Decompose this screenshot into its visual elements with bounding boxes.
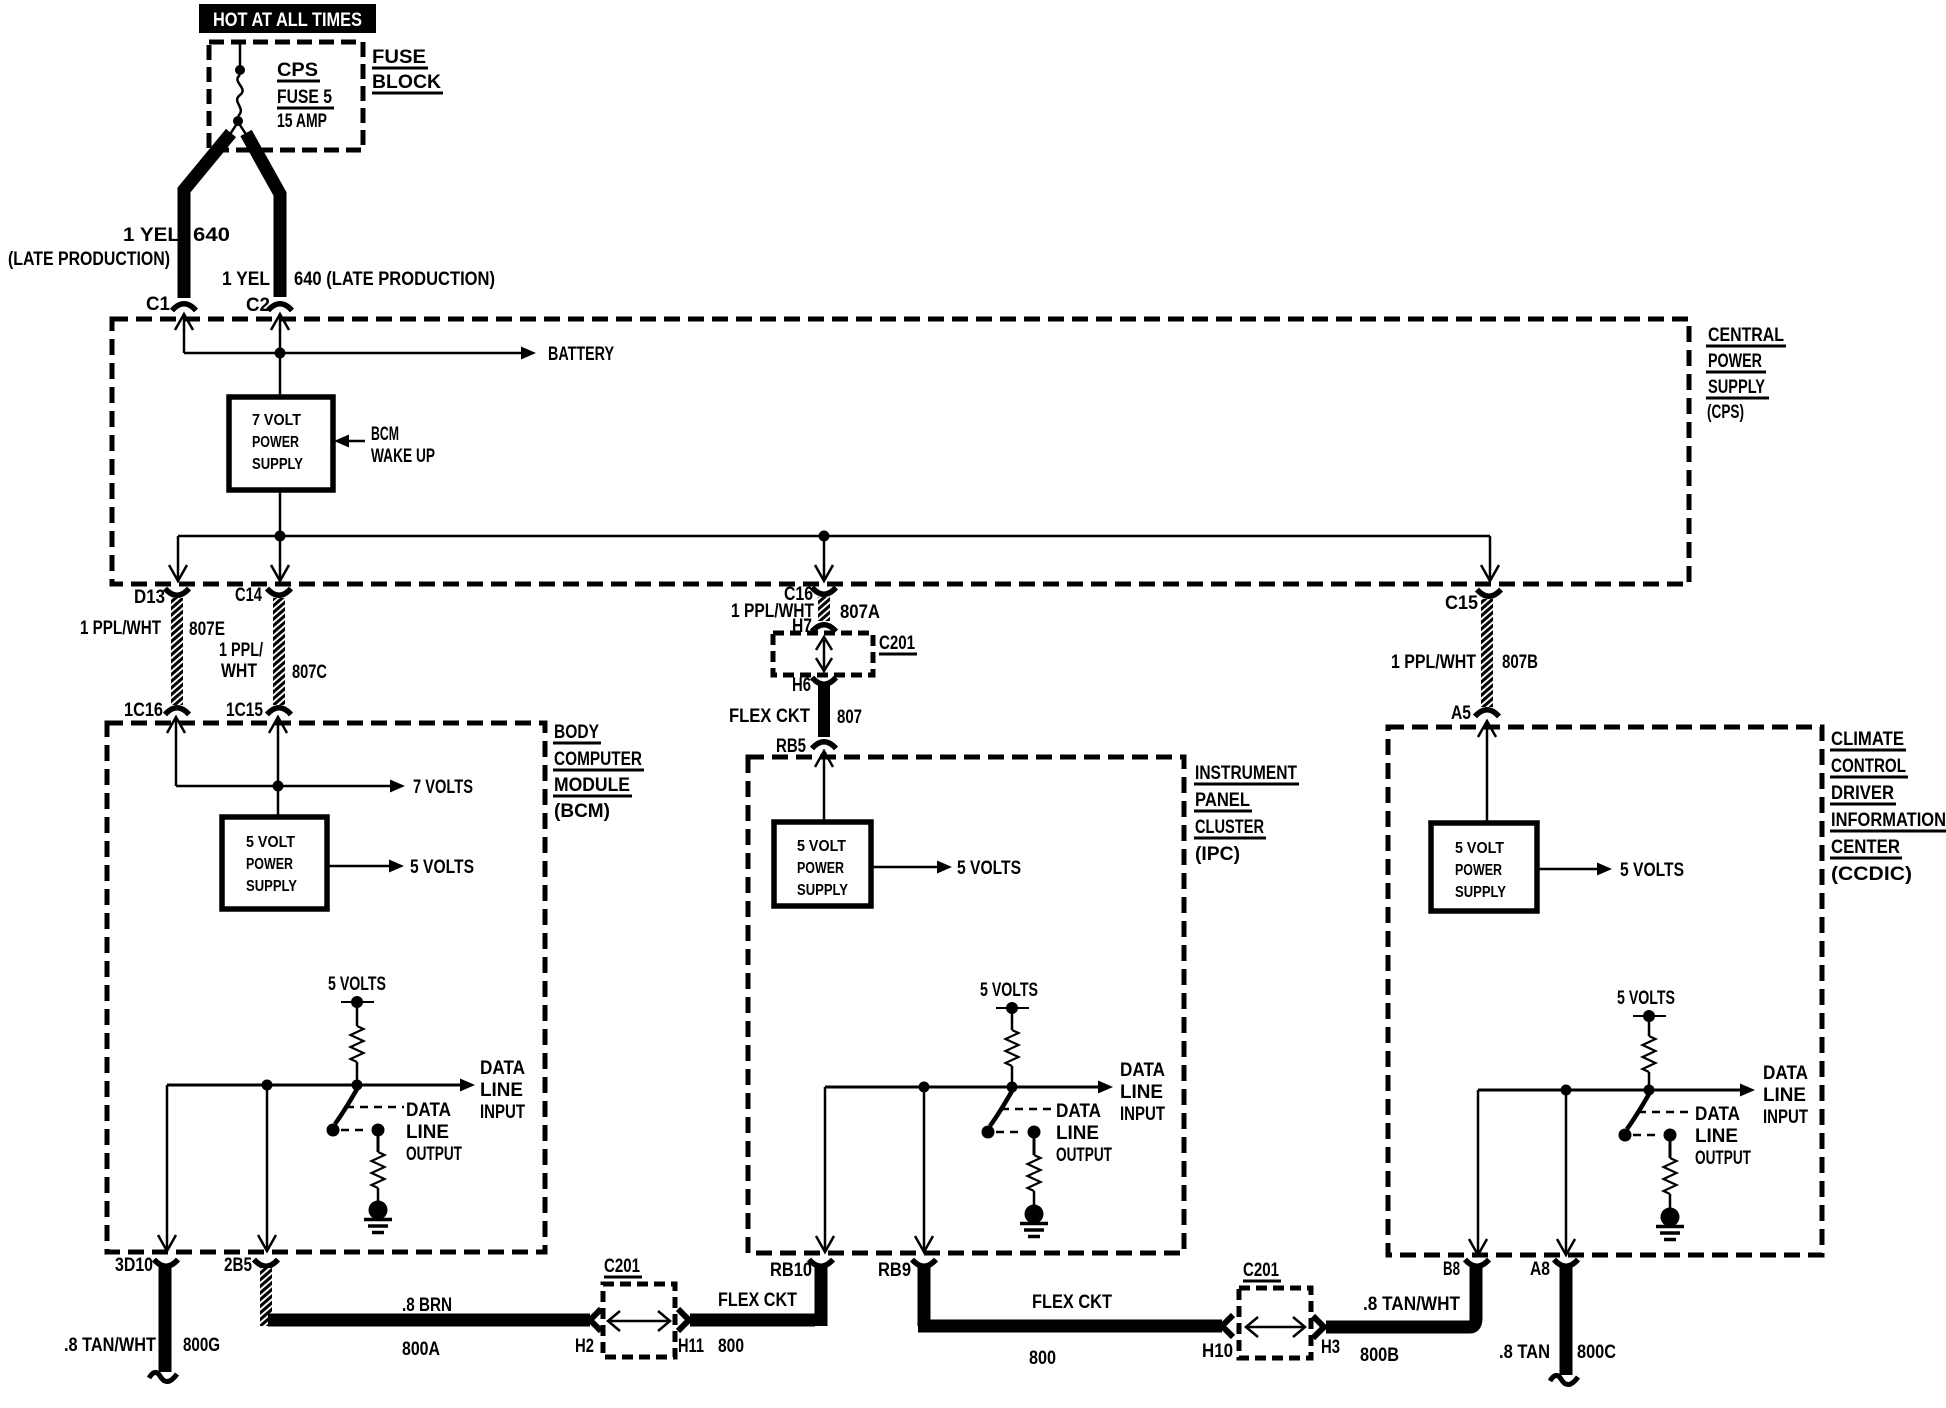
BCM 5 volts pull-up terminal bbox=[328, 974, 386, 1008]
svg-text:807B: 807B bbox=[1502, 652, 1538, 673]
svg-text:SUPPLY: SUPPLY bbox=[252, 456, 303, 473]
junction 7 volts bbox=[273, 781, 284, 792]
entry arrow 1C15 bbox=[269, 717, 287, 786]
connector H7 bbox=[792, 616, 836, 637]
label .8 TAN/WHT 800B bbox=[1360, 1294, 1460, 1366]
svg-text:1 YEL: 1 YEL bbox=[222, 269, 270, 290]
IPC switch arm bbox=[982, 1091, 1013, 1139]
svg-text:FUSE 5: FUSE 5 bbox=[277, 87, 332, 108]
IPC data line input wire bbox=[825, 1081, 1113, 1094]
label 1 PPL/WHT 807A bbox=[731, 601, 880, 623]
svg-text:C201: C201 bbox=[879, 633, 915, 654]
instrument panel cluster (IPC) box bbox=[748, 757, 1184, 1253]
fuse label CPS FUSE 5 15 AMP bbox=[277, 60, 334, 132]
svg-text:BLOCK: BLOCK bbox=[372, 72, 441, 93]
svg-text:3D10: 3D10 bbox=[115, 1255, 153, 1276]
svg-text:807: 807 bbox=[837, 707, 862, 728]
BCM wire to 3D10 bbox=[158, 1085, 176, 1251]
BCM switch arm bbox=[327, 1089, 358, 1137]
connector C201 (IP harness) box top bbox=[773, 633, 917, 675]
BCM data line output label bbox=[406, 1100, 462, 1165]
IPC output resistor bbox=[1028, 1138, 1041, 1205]
label .8 BRN 800A bbox=[402, 1295, 452, 1360]
IPC wire to RB9 bbox=[915, 1092, 933, 1252]
svg-text:SUPPLY: SUPPLY bbox=[797, 882, 848, 899]
IPC 5 volts pull-up terminal bbox=[980, 980, 1038, 1014]
connector RB10 bbox=[770, 1260, 833, 1282]
svg-text:RB9: RB9 bbox=[878, 1260, 911, 1281]
BCM data line input label bbox=[480, 1058, 525, 1123]
svg-text:FLEX CKT: FLEX CKT bbox=[729, 706, 810, 727]
svg-text:(CPS): (CPS) bbox=[1707, 402, 1744, 423]
svg-text:800B: 800B bbox=[1360, 1345, 1399, 1366]
svg-text:DATA: DATA bbox=[1763, 1063, 1808, 1084]
svg-text:RB5: RB5 bbox=[776, 736, 806, 757]
BCM data line output dashed feed bbox=[346, 1106, 404, 1109]
svg-text:PANEL: PANEL bbox=[1195, 790, 1250, 811]
junction distribution at supply bbox=[275, 531, 286, 542]
svg-text:DATA: DATA bbox=[1120, 1060, 1165, 1081]
IPC switch output dashed bbox=[996, 1126, 1041, 1139]
svg-text:INFORMATION: INFORMATION bbox=[1831, 810, 1946, 831]
svg-text:800G: 800G bbox=[183, 1335, 220, 1356]
svg-text:INPUT: INPUT bbox=[1763, 1107, 1808, 1128]
connector C2 bbox=[246, 295, 292, 316]
connector C16 bbox=[784, 584, 836, 605]
fuse block label bbox=[372, 47, 443, 93]
svg-text:FUSE: FUSE bbox=[372, 47, 426, 68]
wire 807C hatched bbox=[273, 598, 285, 705]
C201 H10-H3 pass-through arrow bbox=[1246, 1317, 1305, 1337]
battery arrow bbox=[521, 344, 614, 365]
wire 800A thick bus bbox=[268, 1314, 590, 1327]
BCM label bbox=[553, 722, 644, 822]
distribution bus wire bbox=[178, 535, 1490, 538]
CCDIC data line input label bbox=[1763, 1063, 1808, 1128]
climate control driver information center (CCDIC) box bbox=[1388, 727, 1822, 1255]
svg-text:1 PPL/WHT: 1 PPL/WHT bbox=[80, 618, 161, 639]
entry arrow 1C16 bbox=[167, 717, 185, 786]
svg-text:CONTROL: CONTROL bbox=[1831, 756, 1906, 777]
junction C16 tap bbox=[819, 531, 830, 542]
svg-text:LINE: LINE bbox=[1120, 1082, 1163, 1103]
svg-text:640 (LATE PRODUCTION): 640 (LATE PRODUCTION) bbox=[294, 269, 495, 290]
svg-text:.8 BRN: .8 BRN bbox=[402, 1295, 452, 1316]
BCM pull-up resistor bbox=[351, 1002, 364, 1085]
svg-text:POWER: POWER bbox=[246, 856, 293, 873]
svg-text:5 VOLT: 5 VOLT bbox=[246, 834, 295, 851]
svg-text:800A: 800A bbox=[402, 1339, 440, 1360]
wire 800G thick bbox=[159, 1267, 172, 1372]
svg-text:LINE: LINE bbox=[480, 1080, 523, 1101]
exit arrow C16 bbox=[815, 536, 833, 581]
body computer module (BCM) box bbox=[107, 723, 545, 1252]
junction battery bbox=[275, 348, 286, 359]
svg-text:640: 640 bbox=[193, 225, 230, 246]
svg-text:807E: 807E bbox=[189, 619, 225, 640]
connector C1 bbox=[146, 294, 196, 315]
BCM 5 volt power supply box bbox=[222, 817, 327, 909]
7 volts arrow bbox=[278, 777, 473, 798]
junction CCDIC data line at A8 bbox=[1561, 1085, 1572, 1096]
svg-text:800: 800 bbox=[718, 1336, 744, 1357]
svg-text:POWER: POWER bbox=[1455, 862, 1502, 879]
CCDIC data line input wire bbox=[1478, 1084, 1755, 1097]
entry arrow A5 bbox=[1478, 721, 1496, 823]
svg-text:(CCDIC): (CCDIC) bbox=[1831, 864, 1912, 885]
svg-text:C15: C15 bbox=[1445, 593, 1478, 614]
connector RB9 bbox=[878, 1260, 936, 1282]
svg-text:INPUT: INPUT bbox=[480, 1102, 525, 1123]
svg-text:800C: 800C bbox=[1577, 1342, 1616, 1363]
fuse CPS FUSE 5 element bbox=[237, 75, 242, 116]
svg-text:807C: 807C bbox=[292, 662, 327, 683]
fuse terminal dot bottom bbox=[233, 116, 243, 126]
exit arrow D13 bbox=[169, 536, 187, 581]
svg-text:C2: C2 bbox=[246, 295, 270, 316]
svg-text:BATTERY: BATTERY bbox=[548, 344, 614, 365]
svg-text:INSTRUMENT: INSTRUMENT bbox=[1195, 763, 1297, 784]
wire 800G break bbox=[149, 1372, 177, 1381]
svg-text:RB10: RB10 bbox=[770, 1260, 812, 1281]
fuse block box bbox=[209, 42, 363, 150]
bus prongs H3 bbox=[1313, 1316, 1324, 1338]
label FLEX CKT 800 mid bbox=[1029, 1292, 1112, 1369]
entry arrow C1 bbox=[175, 314, 193, 353]
svg-text:5 VOLTS: 5 VOLTS bbox=[1617, 988, 1675, 1009]
connector 1C15 bbox=[226, 700, 291, 721]
label 1 PPL/WHT 807B bbox=[1391, 652, 1538, 673]
svg-text:H10: H10 bbox=[1202, 1341, 1233, 1362]
svg-text:1C15: 1C15 bbox=[226, 700, 263, 721]
CCDIC output resistor bbox=[1664, 1141, 1677, 1208]
junction IPC data line at RB9 bbox=[919, 1082, 930, 1093]
connector B8 bbox=[1443, 1259, 1489, 1280]
svg-text:LINE: LINE bbox=[1695, 1126, 1738, 1147]
label FLEX CKT 800 left bbox=[718, 1290, 797, 1357]
wire 800C break bbox=[1550, 1375, 1578, 1384]
wire 807 flex ckt thick bbox=[818, 685, 830, 737]
IPC data line input label bbox=[1120, 1060, 1165, 1125]
wire 800A hatched drop bbox=[260, 1268, 272, 1326]
label 1 YEL 640 (late production) right bbox=[222, 269, 495, 290]
svg-text:CPS: CPS bbox=[277, 60, 318, 81]
connector RB5 bbox=[776, 736, 836, 757]
exit arrow C14 bbox=[271, 536, 289, 581]
C201 H2-H11 pass-through arrow bbox=[608, 1311, 670, 1331]
svg-text:SUPPLY: SUPPLY bbox=[1708, 377, 1765, 398]
IPC pull-up resistor bbox=[1006, 1008, 1019, 1087]
svg-text:7 VOLTS: 7 VOLTS bbox=[413, 777, 473, 798]
wire to BCM 5 volt supply bbox=[277, 786, 280, 817]
svg-text:D13: D13 bbox=[134, 587, 165, 608]
svg-text:INPUT: INPUT bbox=[1120, 1104, 1165, 1125]
svg-text:CLUSTER: CLUSTER bbox=[1195, 817, 1264, 838]
connector 2B5 bbox=[224, 1255, 278, 1276]
connector C15 bbox=[1445, 590, 1501, 615]
svg-text:(LATE PRODUCTION): (LATE PRODUCTION) bbox=[8, 249, 170, 270]
svg-text:5 VOLTS: 5 VOLTS bbox=[410, 857, 474, 878]
svg-text:5 VOLT: 5 VOLT bbox=[1455, 840, 1504, 857]
connector 1C16 bbox=[124, 700, 189, 721]
svg-text:1 YEL: 1 YEL bbox=[123, 225, 180, 246]
svg-text:OUTPUT: OUTPUT bbox=[406, 1144, 462, 1165]
svg-text:BCM: BCM bbox=[371, 424, 399, 445]
CCDIC wire to B8 bbox=[1469, 1090, 1487, 1255]
connector C201 (H2/H11) box bbox=[603, 1256, 675, 1357]
svg-text:(IPC): (IPC) bbox=[1195, 844, 1240, 865]
bus prongs H11 bbox=[678, 1309, 689, 1331]
svg-text:807A: 807A bbox=[840, 602, 880, 623]
connector 3D10 bbox=[115, 1255, 178, 1276]
svg-text:DRIVER: DRIVER bbox=[1831, 783, 1894, 804]
CCDIC switch arm bbox=[1619, 1094, 1650, 1142]
svg-text:5 VOLTS: 5 VOLTS bbox=[980, 980, 1038, 1001]
svg-text:WAKE UP: WAKE UP bbox=[371, 446, 435, 467]
CCDIC ground bbox=[1656, 1208, 1684, 1240]
svg-text:A8: A8 bbox=[1530, 1259, 1550, 1280]
svg-text:LINE: LINE bbox=[406, 1122, 449, 1143]
bus end prongs H10 bbox=[1222, 1315, 1233, 1337]
wire 7v supply to distribution bus bbox=[279, 490, 282, 536]
svg-text:POWER: POWER bbox=[1708, 351, 1762, 372]
svg-text:WHT: WHT bbox=[221, 661, 257, 682]
connector D13 bbox=[134, 587, 189, 608]
svg-text:15 AMP: 15 AMP bbox=[277, 111, 327, 132]
svg-text:H11: H11 bbox=[678, 1336, 704, 1357]
label 1 PPL/WHT 807C bbox=[219, 640, 327, 683]
svg-text:HOT AT ALL TIMES: HOT AT ALL TIMES bbox=[213, 10, 362, 31]
exit arrow C15 bbox=[1481, 536, 1499, 581]
svg-text:BODY: BODY bbox=[554, 722, 599, 743]
svg-text:CENTRAL: CENTRAL bbox=[1708, 325, 1784, 346]
wire RB9 drop and 800 bus to H10 bbox=[918, 1266, 1222, 1326]
7 volt power supply box U1 bbox=[229, 397, 333, 490]
wire 640 left (C1) thick bbox=[184, 133, 231, 298]
svg-text:5 VOLT: 5 VOLT bbox=[797, 838, 846, 855]
BCM ground bbox=[364, 1201, 392, 1233]
connector C201 (H10/H3) box bbox=[1239, 1260, 1311, 1358]
svg-text:POWER: POWER bbox=[252, 434, 299, 451]
bus end prongs H2 bbox=[590, 1309, 601, 1331]
svg-text:C1: C1 bbox=[146, 294, 170, 315]
wire 640 right (C2) thick bbox=[246, 133, 280, 297]
BCM wire to 2B5 bbox=[258, 1090, 276, 1251]
connector A8 bbox=[1530, 1259, 1578, 1280]
svg-text:2B5: 2B5 bbox=[224, 1255, 252, 1276]
IPC data line output label bbox=[1056, 1101, 1112, 1166]
svg-text:800: 800 bbox=[1029, 1348, 1056, 1369]
svg-text:5 VOLTS: 5 VOLTS bbox=[957, 858, 1021, 879]
CCDIC switch output dashed bbox=[1633, 1129, 1677, 1142]
CCDIC data line output label bbox=[1695, 1104, 1751, 1169]
hot at all times banner bbox=[199, 4, 376, 33]
BCM switch output dashed bbox=[341, 1124, 385, 1137]
svg-text:1 PPL/: 1 PPL/ bbox=[219, 640, 264, 661]
wire 807A hatched bbox=[818, 597, 830, 621]
svg-text:COMPUTER: COMPUTER bbox=[554, 749, 642, 770]
BCM data line input wire bbox=[167, 1079, 475, 1092]
svg-text:.8 TAN: .8 TAN bbox=[1499, 1342, 1550, 1363]
svg-text:.8 TAN/WHT: .8 TAN/WHT bbox=[1363, 1294, 1460, 1315]
svg-text:1 PPL/WHT: 1 PPL/WHT bbox=[1391, 652, 1476, 673]
svg-text:H3: H3 bbox=[1321, 1337, 1340, 1358]
junction data line at pull-up bbox=[352, 1080, 363, 1091]
labels H2 H11 bbox=[575, 1336, 704, 1357]
bcm wake up arrow bbox=[334, 424, 435, 467]
IPC ground bbox=[1020, 1205, 1048, 1237]
label .8 TAN/WHT 800G bbox=[64, 1335, 220, 1356]
svg-text:B8: B8 bbox=[1443, 1259, 1460, 1280]
svg-text:(BCM): (BCM) bbox=[554, 801, 610, 822]
wire 7 volts branch bbox=[176, 785, 278, 788]
label .8 TAN 800C bbox=[1499, 1342, 1616, 1363]
entry arrow C2 bbox=[271, 314, 289, 353]
fuse terminal dot top bbox=[235, 65, 245, 75]
junction IPC data line at pull-up bbox=[1007, 1082, 1018, 1093]
CCDIC 5 volts pull-up terminal bbox=[1617, 988, 1675, 1022]
svg-text:LINE: LINE bbox=[1763, 1085, 1806, 1106]
CCDIC label bbox=[1830, 729, 1946, 885]
svg-text:CENTER: CENTER bbox=[1831, 837, 1900, 858]
svg-text:CLIMATE: CLIMATE bbox=[1831, 729, 1904, 750]
label 1 YEL 640 (late production) left bbox=[8, 225, 230, 270]
svg-text:POWER: POWER bbox=[797, 860, 844, 877]
wire 800C thick bbox=[1560, 1267, 1573, 1375]
BCM output resistor bbox=[372, 1136, 385, 1201]
svg-text:C201: C201 bbox=[1243, 1260, 1279, 1281]
IPC data line output dashed feed bbox=[1001, 1108, 1054, 1111]
central power supply (CPS) box bbox=[112, 319, 1689, 584]
svg-text:FLEX CKT: FLEX CKT bbox=[1032, 1292, 1112, 1313]
svg-text:7 VOLT: 7 VOLT bbox=[252, 412, 301, 429]
svg-text:C14: C14 bbox=[235, 585, 262, 606]
IPC label bbox=[1194, 763, 1299, 865]
BCM 5 volts arrow bbox=[327, 857, 474, 878]
junction CCDIC data line at pull-up bbox=[1644, 1085, 1655, 1096]
IPC wire to RB10 bbox=[816, 1087, 834, 1252]
svg-text:5 VOLTS: 5 VOLTS bbox=[328, 974, 386, 995]
svg-text:1C16: 1C16 bbox=[124, 700, 163, 721]
wire battery to 7 volt supply bbox=[279, 353, 282, 397]
connector C14 bbox=[235, 585, 291, 606]
svg-text:OUTPUT: OUTPUT bbox=[1695, 1148, 1751, 1169]
svg-text:LINE: LINE bbox=[1056, 1123, 1099, 1144]
fuse lead wire bbox=[239, 42, 242, 66]
svg-text:DATA: DATA bbox=[1056, 1101, 1101, 1122]
svg-text:DATA: DATA bbox=[1695, 1104, 1740, 1125]
wire 807E hatched bbox=[171, 598, 183, 705]
svg-text:DATA: DATA bbox=[406, 1100, 451, 1121]
svg-text:OUTPUT: OUTPUT bbox=[1056, 1145, 1112, 1166]
svg-text:SUPPLY: SUPPLY bbox=[246, 878, 297, 895]
svg-text:H2: H2 bbox=[575, 1336, 594, 1357]
label 1 PPL/WHT 807E bbox=[80, 618, 225, 640]
connector A5 bbox=[1451, 703, 1499, 724]
CCDIC wire to A8 bbox=[1557, 1095, 1575, 1255]
labels H10 H3 bbox=[1202, 1337, 1340, 1362]
CPS label bbox=[1706, 325, 1786, 423]
C201 pass-through arrows bbox=[816, 637, 832, 671]
IPC 5 volt power supply box bbox=[774, 822, 871, 906]
connector H6 bbox=[792, 675, 836, 696]
label FLEX CKT 807 bbox=[729, 706, 862, 728]
CCDIC 5 volts arrow bbox=[1537, 860, 1684, 881]
svg-text:SUPPLY: SUPPLY bbox=[1455, 884, 1506, 901]
svg-text:MODULE: MODULE bbox=[554, 775, 630, 796]
IPC 5 volts arrow bbox=[871, 858, 1021, 879]
wire 800 flex ckt bus to RB10 bbox=[690, 1266, 821, 1326]
svg-text:5 VOLTS: 5 VOLTS bbox=[1620, 860, 1684, 881]
CCDIC pull-up resistor bbox=[1643, 1016, 1656, 1090]
wire battery branch bbox=[184, 352, 521, 355]
wire 807B hatched bbox=[1481, 599, 1493, 707]
svg-text:H6: H6 bbox=[792, 675, 811, 696]
CCDIC 5 volt power supply box bbox=[1431, 823, 1537, 911]
wire 800B thick bbox=[1326, 1266, 1476, 1327]
CCDIC data line output dashed feed bbox=[1638, 1111, 1690, 1114]
wire V split from fuse bbox=[225, 122, 251, 142]
svg-text:C201: C201 bbox=[604, 1256, 640, 1277]
svg-text:DATA: DATA bbox=[480, 1058, 525, 1079]
junction data line at 2B5 bbox=[262, 1080, 273, 1091]
svg-text:.8 TAN/WHT: .8 TAN/WHT bbox=[64, 1335, 156, 1356]
svg-text:A5: A5 bbox=[1451, 703, 1471, 724]
svg-text:FLEX CKT: FLEX CKT bbox=[718, 1290, 797, 1311]
entry arrow RB5 bbox=[815, 751, 833, 822]
